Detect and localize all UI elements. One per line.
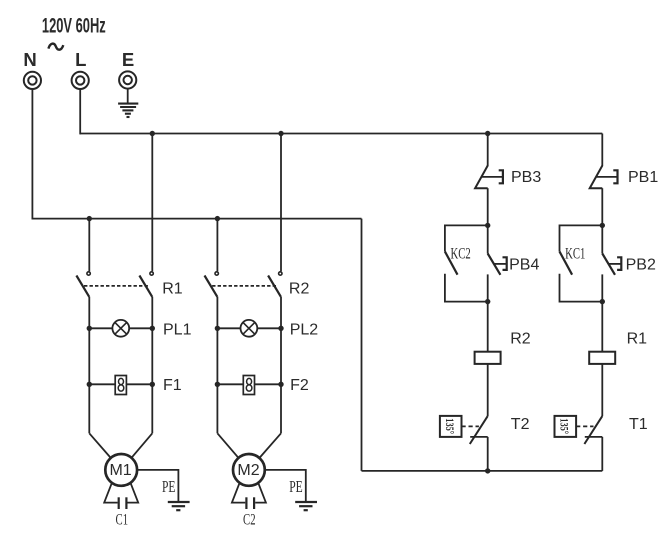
svg-text:C2: C2 — [243, 510, 256, 528]
pushbutton PB3 (NC) — [475, 165, 503, 188]
node PL1 left — [87, 326, 92, 331]
node L-rail / branch1 — [150, 131, 155, 136]
wire L drop — [79, 89, 81, 134]
svg-text:PL2: PL2 — [290, 321, 319, 338]
contactor R2 pole right — [268, 272, 282, 297]
wire PE2 — [265, 470, 306, 502]
lamp PL1 — [89, 320, 152, 337]
wire N rail — [32, 218, 361, 220]
wire coil R1 to T1 — [601, 364, 603, 416]
wire PB1 to node — [601, 188, 603, 225]
wire branch1 left mid — [88, 297, 90, 434]
wire N drop — [31, 89, 33, 220]
wire E drop — [127, 89, 129, 103]
svg-text:KC1: KC1 — [565, 245, 585, 263]
node control A upper — [485, 223, 490, 228]
svg-text:F2: F2 — [290, 377, 309, 394]
svg-text:PE: PE — [162, 478, 176, 497]
node L-rail / branch2 — [278, 131, 283, 136]
svg-text:KC2: KC2 — [451, 245, 471, 263]
node F1 right — [150, 382, 155, 387]
svg-text:R1: R1 — [162, 281, 183, 298]
wire branch1 converge right — [132, 433, 152, 457]
lamp PL2 — [217, 320, 281, 337]
capacitor C2 — [246, 497, 254, 509]
svg-text:R1: R1 — [627, 330, 648, 347]
node F1 left — [87, 382, 92, 387]
capacitor C1 — [119, 497, 127, 509]
earth ground E — [118, 104, 138, 117]
svg-text:R2: R2 — [289, 281, 310, 298]
terminal L — [72, 72, 89, 89]
wire L rail — [80, 133, 602, 135]
wire node to coil R2 — [487, 302, 489, 352]
pushbutton PB4 (NO) — [488, 225, 507, 301]
wire T1 to bottom rail — [601, 437, 603, 471]
wire T2 to bottom rail — [487, 437, 489, 471]
wire branch1 right pole feed — [151, 134, 153, 272]
fuse F1 — [89, 376, 152, 395]
wire bottom rail — [362, 470, 603, 472]
node F2 right — [278, 382, 283, 387]
contact KC2 (NO, parallel) — [445, 225, 488, 301]
pushbutton PB2 (NO) — [602, 225, 621, 301]
svg-text:PB4: PB4 — [509, 257, 539, 274]
svg-text:T1: T1 — [629, 416, 648, 433]
svg-text:120V 60Hz: 120V 60Hz — [42, 13, 106, 37]
svg-text:M1: M1 — [109, 462, 131, 479]
dashed link T1 — [576, 425, 593, 427]
contact KC1 (NO, parallel) — [559, 225, 602, 301]
pushbutton PB1 (NC) — [590, 165, 618, 188]
svg-text:E: E — [122, 49, 134, 70]
motor M1 right leg — [128, 483, 139, 503]
svg-text:C1: C1 — [116, 510, 129, 528]
dashed link T2 — [462, 425, 479, 427]
contactor R2 pole left — [205, 272, 219, 297]
svg-text:135°: 135° — [442, 418, 455, 434]
svg-text:M2: M2 — [237, 462, 259, 479]
svg-text:135°: 135° — [557, 418, 570, 434]
node L-rail / control — [485, 131, 490, 136]
contactor R1 linkage (dashed) — [84, 285, 148, 287]
wire node to coil R1 — [601, 302, 603, 352]
wire branch2 right pole feed — [280, 134, 282, 272]
ground PE1 — [168, 502, 190, 510]
wire control branch B top — [601, 134, 603, 166]
coil R1 — [589, 352, 615, 364]
wire control branch A top — [487, 134, 489, 166]
svg-text:T2: T2 — [511, 416, 530, 433]
motor M1 left leg — [104, 483, 117, 503]
motor M2 right leg — [255, 483, 266, 503]
wire coil R2 to T2 — [487, 364, 489, 416]
AC sine symbol — [48, 44, 63, 50]
node N-rail / branch2 — [215, 216, 220, 221]
svg-text:PB2: PB2 — [626, 257, 656, 274]
motor M2 — [233, 454, 265, 486]
node PL2 right — [278, 326, 283, 331]
svg-text:PB1: PB1 — [628, 169, 658, 186]
svg-text:F1: F1 — [163, 377, 182, 394]
ground PE2 — [295, 502, 317, 510]
wire left drop to bottom rail — [361, 219, 363, 471]
coil R2 — [475, 352, 501, 364]
motor M2 left leg — [232, 483, 245, 503]
svg-text:PL1: PL1 — [163, 321, 192, 338]
thermal box T2 (135deg) — [440, 416, 462, 437]
node N-rail / branch1 — [87, 216, 92, 221]
wire branch2 converge right — [260, 433, 281, 457]
node PL1 right — [150, 326, 155, 331]
terminal E — [119, 71, 136, 88]
wire PE1 — [137, 470, 178, 502]
fuse F2 — [217, 376, 281, 395]
node control B lower — [600, 299, 605, 304]
terminal N — [24, 72, 41, 89]
thermal contact T2 (NC) — [470, 416, 488, 444]
svg-text:PE: PE — [289, 478, 303, 497]
wire branch2 left mid — [216, 297, 218, 434]
wire branch1 left pole feed — [88, 219, 90, 272]
svg-text:N: N — [23, 49, 36, 70]
wire branch1 right mid — [151, 297, 153, 434]
wire branch1 converge left — [89, 433, 110, 457]
node bottom rail / T2 branch — [485, 468, 490, 473]
node control B upper — [600, 223, 605, 228]
svg-text:PB3: PB3 — [511, 169, 541, 186]
svg-text:R2: R2 — [510, 330, 531, 347]
node F2 left — [215, 382, 220, 387]
wire PB3 to node — [487, 188, 489, 225]
contactor R1 pole left — [76, 272, 90, 297]
node PL2 left — [215, 326, 220, 331]
contactor R1 pole right — [139, 272, 153, 297]
node control A lower — [485, 299, 490, 304]
wire branch2 left pole feed — [216, 219, 218, 272]
contactor R2 linkage (dashed) — [212, 285, 276, 287]
wire branch2 converge left — [217, 433, 238, 457]
motor M1 — [105, 454, 137, 486]
thermal contact T1 (NC) — [584, 416, 602, 444]
svg-text:L: L — [75, 49, 86, 70]
thermal box T1 (135deg) — [555, 416, 577, 437]
wire branch2 right mid — [280, 297, 282, 434]
